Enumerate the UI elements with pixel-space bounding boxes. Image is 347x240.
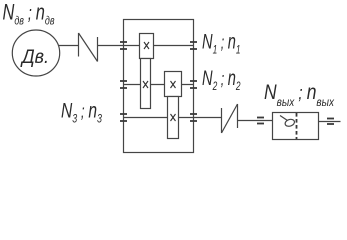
svg-text:Nвых ; nвых: Nвых ; nвых bbox=[264, 81, 335, 109]
svg-text:Дв.: Дв. bbox=[20, 47, 49, 68]
svg-text:Nдв ; nдв: Nдв ; nдв bbox=[3, 0, 55, 28]
svg-text:N1 ; n1: N1 ; n1 bbox=[202, 31, 241, 57]
svg-text:N2 ; n2: N2 ; n2 bbox=[202, 67, 241, 93]
svg-text:N3 ; n3: N3 ; n3 bbox=[61, 100, 102, 126]
